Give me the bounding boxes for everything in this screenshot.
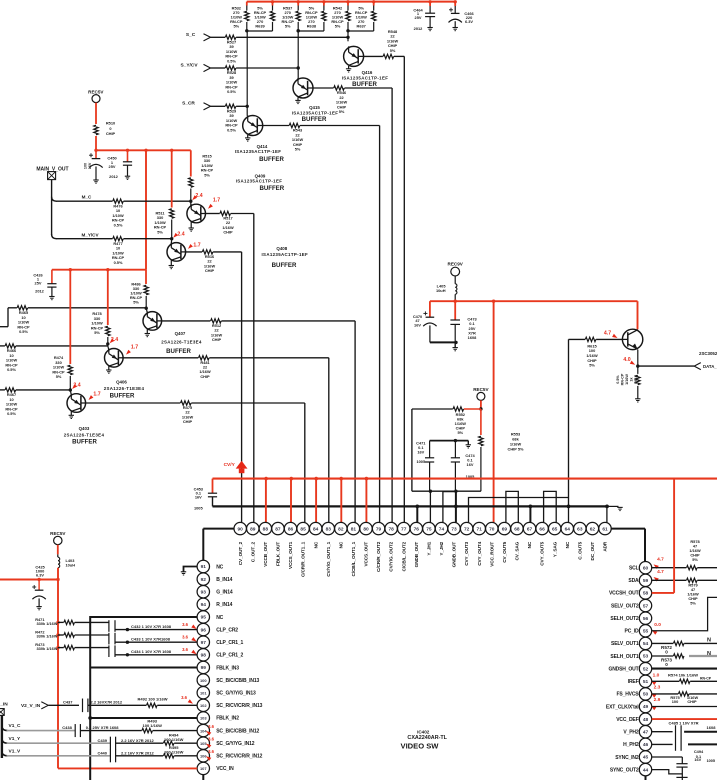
wire red stubs to pins xyxy=(265,479,267,523)
svg-text:4.7: 4.7 xyxy=(657,569,664,575)
svg-text:BUFFER: BUFFER xyxy=(259,156,284,163)
svg-text:R574 10k 1/16W: R574 10k 1/16W xyxy=(668,673,698,678)
svg-text:VCC_ROUT: VCC_ROUT xyxy=(489,542,494,567)
IC left pins xyxy=(197,560,209,572)
resistor R471 xyxy=(56,621,59,624)
capacitor C473 xyxy=(454,301,456,320)
transistor Q409 ISA1235AC1TP-1EF xyxy=(190,201,192,205)
svg-text:5%: 5% xyxy=(133,300,139,305)
svg-text:102: 102 xyxy=(200,703,207,708)
power rail mid-left (red) xyxy=(52,269,146,271)
ground Q406 xyxy=(108,366,110,370)
capacitor C4xx H_PH2 xyxy=(652,743,673,745)
ground Q414 xyxy=(247,135,249,138)
svg-text:IREF: IREF xyxy=(628,679,639,685)
resistor R637 xyxy=(373,2,375,6)
wire R517 to pin89 xyxy=(231,213,254,215)
power rail CV/Y (red) xyxy=(213,478,717,480)
svg-text:CLP_CR1_2: CLP_CR1_2 xyxy=(216,653,243,659)
svg-text:1608: 1608 xyxy=(707,725,717,730)
resistor R546 xyxy=(313,87,334,89)
resistor R510 xyxy=(94,125,98,135)
wire V1 stub xyxy=(1,715,3,758)
wire to Q406 xyxy=(16,345,108,347)
svg-text:74: 74 xyxy=(439,526,445,532)
svg-text:NC: NC xyxy=(338,541,343,548)
svg-text:47: 47 xyxy=(643,729,649,735)
svg-text:C/CR/R_OUT2: C/CR/R_OUT2 xyxy=(376,541,381,572)
svg-text:VCCS_OUT: VCCS_OUT xyxy=(364,542,369,567)
capacitor C474 xyxy=(454,441,456,458)
resistor R472 xyxy=(56,633,59,636)
wire pin103 FBLK_IN2 xyxy=(90,717,197,719)
svg-text:EXT_CLK/X'tal: EXT_CLK/X'tal xyxy=(606,704,639,710)
jumper pins 69-68 xyxy=(506,491,518,522)
svg-text:CV_OUT5: CV_OUT5 xyxy=(502,541,507,562)
svg-text:CHIP: CHIP xyxy=(205,268,215,273)
svg-text:48: 48 xyxy=(643,717,649,723)
wire S_CR xyxy=(211,105,226,107)
resistor R574 xyxy=(652,680,680,682)
capacitor C438 xyxy=(74,724,76,737)
capacitor C4xx V_PH2 xyxy=(652,731,673,733)
svg-text:SC_B/C/CB/B_IN12: SC_B/C/CB/B_IN12 xyxy=(216,728,259,734)
svg-text:0.5%: 0.5% xyxy=(227,127,236,132)
capacitor C494 xyxy=(652,756,683,758)
svg-text:25V: 25V xyxy=(109,164,116,169)
svg-text:VCC_DEF: VCC_DEF xyxy=(616,717,638,723)
svg-text:SELV_OUT1: SELV_OUT1 xyxy=(611,641,639,647)
svg-text:BUFFER: BUFFER xyxy=(302,116,327,123)
resistor R575 xyxy=(652,693,679,695)
wire M_C to Q409 xyxy=(124,200,191,202)
wire R481 to pin83 xyxy=(209,357,328,359)
svg-text:FBLK_IN2: FBLK_IN2 xyxy=(216,716,239,722)
wire MAIN_V_OUT xyxy=(51,180,53,235)
svg-text:Q416: Q416 xyxy=(362,70,373,75)
svg-text:ISA1235AC1TP-1EF: ISA1235AC1TP-1EF xyxy=(261,252,308,257)
ground Q409 xyxy=(190,222,192,229)
resistor R578 xyxy=(652,567,687,569)
wire pin72 to pin64 link xyxy=(469,498,569,523)
IC top pins xyxy=(234,522,246,534)
svg-text:N: N xyxy=(707,651,711,657)
svg-text:2.3: 2.3 xyxy=(654,684,661,690)
svg-text:1608: 1608 xyxy=(468,335,477,340)
svg-text:60: 60 xyxy=(643,565,649,571)
wire EXT_CLK xyxy=(652,706,717,708)
svg-text:SELH_OUT1: SELH_OUT1 xyxy=(610,654,638,660)
svg-text:79: 79 xyxy=(376,526,382,532)
svg-text:2012: 2012 xyxy=(109,174,118,179)
svg-text:R637: R637 xyxy=(357,24,366,29)
svg-text:0: 0 xyxy=(665,662,668,667)
svg-text:2.2 16V X7R 2012: 2.2 16V X7R 2012 xyxy=(121,750,154,755)
svg-text:76: 76 xyxy=(414,526,420,532)
transistor Q403 2SA1226-T1E3E4 xyxy=(70,390,71,395)
ground Q403 xyxy=(70,411,72,415)
svg-text:6.3V: 6.3V xyxy=(36,572,44,577)
resistor R466 xyxy=(5,344,16,348)
svg-text:2.4: 2.4 xyxy=(177,231,184,237)
svg-text:1005: 1005 xyxy=(194,506,203,511)
svg-text:C_OUT5: C_OUT5 xyxy=(577,541,582,559)
resistor R478 xyxy=(107,270,109,325)
svg-text:6.3V: 6.3V xyxy=(465,19,473,24)
svg-text:73: 73 xyxy=(451,526,457,532)
wire pin76 stub xyxy=(416,506,418,522)
svg-text:SYNC_IN2: SYNC_IN2 xyxy=(615,755,639,761)
svg-text:86: 86 xyxy=(288,526,294,532)
svg-text:CV/Y/G_OUT2: CV/Y/G_OUT2 xyxy=(389,541,394,571)
wire M_C xyxy=(56,200,113,202)
svg-text:49: 49 xyxy=(643,704,649,710)
IC right pins xyxy=(639,562,651,574)
svg-text:3.6: 3.6 xyxy=(208,749,214,754)
svg-text:R510: R510 xyxy=(106,121,115,126)
svg-text:Q407: Q407 xyxy=(175,331,186,336)
resistor R638 xyxy=(323,2,325,6)
wire red VCC_IN vertical xyxy=(57,568,59,769)
transistor Q416 ISA1235AC1TP-1EF xyxy=(344,46,364,66)
wire pin75 xyxy=(429,491,431,522)
svg-text:80: 80 xyxy=(363,526,369,532)
wire R552 box left xyxy=(411,409,413,491)
svg-text:16V: 16V xyxy=(195,495,202,500)
svg-text:V1_C: V1_C xyxy=(9,723,22,729)
capacitor C450 xyxy=(95,150,97,158)
svg-text:M_C: M_C xyxy=(82,194,92,199)
svg-text:103: 103 xyxy=(200,716,207,721)
svg-text:64: 64 xyxy=(565,526,571,532)
svg-text:3.6: 3.6 xyxy=(208,724,214,729)
svg-text:V_PH2: V_PH2 xyxy=(623,730,638,736)
wire pair1 vertical to Q414 xyxy=(246,31,248,116)
power rail REC9V (red) xyxy=(430,300,638,302)
wire R516 to pin90 xyxy=(213,251,242,253)
svg-text:4.7: 4.7 xyxy=(657,557,664,563)
svg-text:63: 63 xyxy=(577,526,583,532)
svg-text:4.0: 4.0 xyxy=(623,357,630,363)
wire pin64 stub xyxy=(568,506,570,522)
svg-text:BUFFER: BUFFER xyxy=(272,262,297,269)
wire pin99 FBLK_IN3 xyxy=(90,667,197,669)
GND bus bottom-left xyxy=(90,617,197,780)
svg-text:5%: 5% xyxy=(285,24,291,29)
resistor R615 xyxy=(569,338,586,340)
svg-text:62: 62 xyxy=(590,526,596,532)
resistor R475 xyxy=(85,402,181,404)
svg-text:CVY_OUT3: CVY_OUT3 xyxy=(464,541,469,565)
svg-text:84: 84 xyxy=(313,526,319,532)
capacitor C433 xyxy=(75,634,109,636)
svg-text:2SA1226-T1E3E4: 2SA1226-T1E3E4 xyxy=(64,432,105,437)
wire pin74 jog xyxy=(443,492,456,523)
svg-text:1.0: 1.0 xyxy=(653,673,660,679)
capacitor C437 xyxy=(48,704,79,706)
resistor R528 xyxy=(225,66,236,70)
wire R543 to pin79 xyxy=(300,125,380,127)
svg-text:C_OUT_2: C_OUT_2 xyxy=(250,541,255,562)
svg-text:CHIP: CHIP xyxy=(212,337,222,342)
wire S_C to Q416/pair xyxy=(236,36,348,38)
svg-text:96: 96 xyxy=(201,627,207,633)
wire pin73 stub xyxy=(455,491,457,522)
svg-text:85: 85 xyxy=(300,526,306,532)
svg-text:3.6: 3.6 xyxy=(182,622,188,627)
capacitor C470 xyxy=(429,301,431,317)
wire R466 input xyxy=(0,345,5,347)
svg-text:46: 46 xyxy=(643,742,649,748)
svg-text:45: 45 xyxy=(643,755,649,761)
svg-text:2SC3052K: 2SC3052K xyxy=(699,351,717,356)
svg-text:REC5V: REC5V xyxy=(473,387,489,392)
svg-text:70: 70 xyxy=(489,526,495,532)
svg-text:5%: 5% xyxy=(157,229,163,234)
svg-text:REC9V: REC9V xyxy=(448,262,464,267)
svg-text:FBLK_IN3: FBLK_IN3 xyxy=(216,665,239,671)
svg-text:Y_JH1: Y_JH1 xyxy=(426,541,431,555)
transistor Q407 2SA1226-T1E3E4 xyxy=(146,308,147,313)
svg-text:Q415: Q415 xyxy=(309,105,320,110)
svg-text:81: 81 xyxy=(351,526,357,532)
resistor R639 xyxy=(272,2,274,6)
inductor L405 xyxy=(454,276,456,284)
wire S_Y/CV to Q415 xyxy=(236,67,298,69)
svg-text:CV_OUT_2: CV_OUT_2 xyxy=(238,541,243,565)
svg-text:C485 1 10V X7R: C485 1 10V X7R xyxy=(668,721,698,726)
svg-text:SC_G/Y/YG_IN12: SC_G/Y/YG_IN12 xyxy=(216,741,255,747)
svg-text:CHIP 5%: CHIP 5% xyxy=(508,446,524,451)
svg-text:5%: 5% xyxy=(204,172,210,177)
svg-text:R616: R616 xyxy=(634,375,638,384)
svg-text:C433 1 10V X7R1608: C433 1 10V X7R1608 xyxy=(131,636,171,641)
svg-text:0.0: 0.0 xyxy=(654,622,661,628)
IC IC402 CXA2040AR-TL outline xyxy=(203,528,645,530)
resistor R616 xyxy=(636,375,640,385)
svg-text:2.2 16V X7R 2012: 2.2 16V X7R 2012 xyxy=(121,738,154,743)
resistor R492 xyxy=(88,704,146,706)
svg-text:5%: 5% xyxy=(390,48,396,53)
svg-text:16V: 16V xyxy=(417,449,424,454)
svg-text:104: 104 xyxy=(200,728,207,733)
resistor R552 xyxy=(464,408,481,410)
svg-text:BUFFER: BUFFER xyxy=(166,348,191,355)
wire pair join xyxy=(247,30,273,32)
svg-text:16V: 16V xyxy=(694,757,701,762)
resistor R512 xyxy=(161,320,211,322)
svg-text:N: N xyxy=(707,638,711,644)
svg-text:91: 91 xyxy=(201,564,207,570)
svg-text:SELH_OUT2: SELH_OUT2 xyxy=(610,616,638,622)
svg-text:0.5%: 0.5% xyxy=(114,260,123,265)
svg-text:1005: 1005 xyxy=(707,759,715,763)
svg-text:NC: NC xyxy=(216,615,223,621)
power rail (top, red) xyxy=(247,1,456,3)
svg-text:PC_ID: PC_ID xyxy=(625,629,640,635)
jumper pins 66-65 xyxy=(544,491,557,522)
svg-text:V2_V_IN: V2_V_IN xyxy=(21,703,41,709)
svg-text:97: 97 xyxy=(201,640,207,646)
svg-text:SCL: SCL xyxy=(629,566,639,572)
resistor R495 xyxy=(116,755,164,757)
wire VCC_DEF red xyxy=(652,718,717,720)
svg-text:16V: 16V xyxy=(467,462,474,467)
svg-text:50: 50 xyxy=(643,692,649,698)
svg-text:SC_R/CV/CR/R_IN13: SC_R/CV/CR/R_IN13 xyxy=(216,703,262,709)
wire VCCSH_OUT red xyxy=(673,479,675,593)
resistor R511 xyxy=(171,150,173,207)
svg-text:DC_OUT: DC_OUT xyxy=(590,542,595,561)
svg-text:2.9: 2.9 xyxy=(654,697,661,703)
svg-text:CLP_CR2: CLP_CR2 xyxy=(216,627,238,633)
svg-text:V1_Y: V1_Y xyxy=(9,736,22,742)
svg-text:61: 61 xyxy=(602,526,608,532)
resistor R473 xyxy=(56,646,59,649)
wire GNDSH_OUT xyxy=(652,668,717,670)
ground pin91 xyxy=(184,567,198,572)
svg-text:RN-CP: RN-CP xyxy=(621,373,625,385)
svg-text:G_IN14: G_IN14 xyxy=(216,590,233,596)
svg-text:SC_G/Y/Y/G_IN13: SC_G/Y/Y/G_IN13 xyxy=(216,691,256,697)
svg-text:S_C: S_C xyxy=(186,32,196,38)
svg-text:CHIP: CHIP xyxy=(223,230,233,235)
svg-text:S_Y/CV: S_Y/CV xyxy=(180,62,198,68)
svg-text:CHIP: CHIP xyxy=(106,131,116,136)
wire red rail mid xyxy=(95,136,97,150)
svg-text:SC_B/C/CB/B_IN13: SC_B/C/CB/B_IN13 xyxy=(216,678,259,684)
svg-text:1.7: 1.7 xyxy=(193,242,200,248)
svg-text:Q406: Q406 xyxy=(116,380,127,385)
svg-text:57: 57 xyxy=(643,603,649,609)
capacitor C451 xyxy=(127,150,129,162)
wire REC5V junction xyxy=(480,400,482,409)
svg-text:16V: 16V xyxy=(414,322,421,327)
wire pair2 vertical to Q415 xyxy=(297,31,299,78)
svg-text:C/CB/L_OUT2: C/CB/L_OUT2 xyxy=(401,541,406,571)
svg-text:0: 0 xyxy=(109,126,111,131)
resistor R543 xyxy=(263,125,289,127)
svg-text:107: 107 xyxy=(200,766,207,771)
capacitor C464 xyxy=(429,2,431,6)
svg-text:VIDEO SW: VIDEO SW xyxy=(401,741,440,750)
svg-text:2012: 2012 xyxy=(414,26,423,31)
svg-text:82: 82 xyxy=(338,526,344,532)
svg-text:10uH: 10uH xyxy=(66,562,76,567)
svg-text:330k 1/16W: 330k 1/16W xyxy=(37,634,58,639)
svg-text:DATA_: DATA_ xyxy=(703,364,717,369)
wire S_CR to Q414 xyxy=(236,105,247,107)
svg-text:C/CR/R_OUT1_1: C/CR/R_OUT1_1 xyxy=(301,541,306,577)
wire M_Y/CV to Q408 xyxy=(124,238,172,240)
svg-text:5%: 5% xyxy=(339,109,345,114)
wire cap bracket xyxy=(430,440,469,442)
svg-text:0.5%: 0.5% xyxy=(19,329,28,334)
svg-text:56: 56 xyxy=(643,616,649,622)
wire R475 to pin85 xyxy=(191,402,304,404)
svg-text:_IN: _IN xyxy=(0,702,8,708)
svg-text:92: 92 xyxy=(201,577,207,583)
wire to Q407 xyxy=(28,307,146,309)
svg-text:FS_HVCS: FS_HVCS xyxy=(616,692,639,698)
resistor R476 xyxy=(113,199,124,203)
resistor R516 xyxy=(185,251,202,253)
svg-text:1.7: 1.7 xyxy=(131,344,138,350)
svg-text:100 1/16W: 100 1/16W xyxy=(143,723,163,728)
wire REC9V to pin70 (red) xyxy=(493,301,495,522)
svg-text:100 1/16W: 100 1/16W xyxy=(164,749,184,754)
wire pair join xyxy=(348,30,374,32)
svg-text:RN-CP: RN-CP xyxy=(700,676,712,680)
resistor R553 xyxy=(480,409,482,435)
resistor R529 xyxy=(225,104,236,108)
svg-text:CHIP: CHIP xyxy=(183,419,193,424)
svg-text:CLP_CR1_1: CLP_CR1_1 xyxy=(216,640,243,646)
svg-text:3.6: 3.6 xyxy=(208,737,214,742)
resistor R515 xyxy=(190,150,192,176)
svg-text:REC5V: REC5V xyxy=(88,89,104,94)
svg-text:Y_SAG: Y_SAG xyxy=(552,541,557,557)
wire V1_C (gray) xyxy=(2,726,8,731)
wire SYNC_OUT2 xyxy=(652,770,683,774)
svg-text:5%: 5% xyxy=(94,330,100,335)
wire R465 input xyxy=(0,326,8,328)
svg-text:SDA: SDA xyxy=(628,578,639,584)
svg-text:1.7: 1.7 xyxy=(213,198,220,204)
resistor R548 xyxy=(364,55,383,57)
svg-text:83: 83 xyxy=(326,526,332,532)
resistor R537 xyxy=(297,2,299,6)
svg-text:CHIP: CHIP xyxy=(200,374,210,379)
svg-text:330k 1/16W: 330k 1/16W xyxy=(37,646,58,651)
svg-text:SELV_OUT2: SELV_OUT2 xyxy=(611,603,639,609)
svg-text:CV/Y: CV/Y xyxy=(224,462,236,468)
svg-text:53: 53 xyxy=(643,654,649,660)
svg-text:5%: 5% xyxy=(233,24,239,29)
wire red branch left xyxy=(0,579,58,581)
wire pin67 stub xyxy=(529,506,531,522)
svg-text:BUFFER: BUFFER xyxy=(72,439,97,446)
svg-text:VCCB_OUT: VCCB_OUT xyxy=(263,542,268,567)
svg-text:88: 88 xyxy=(263,526,269,532)
resistor R517 xyxy=(205,213,220,215)
wire V1_V (gray) xyxy=(2,751,8,756)
svg-text:M_Y/CV: M_Y/CV xyxy=(81,232,99,237)
svg-text:NC: NC xyxy=(565,541,570,548)
svg-text:SC_R/CV/CR/R_IN12: SC_R/CV/CR/R_IN12 xyxy=(216,754,262,760)
svg-text:B_IN14: B_IN14 xyxy=(216,577,232,583)
transistor Q415 ISA1235AC1TP-1EF xyxy=(293,78,313,98)
resistor R542 xyxy=(347,2,349,6)
svg-text:5%: 5% xyxy=(295,147,301,152)
capacitor C439 xyxy=(109,737,111,750)
resistor R465 xyxy=(17,306,28,310)
svg-text:101: 101 xyxy=(200,690,207,695)
wire red to pin107 VCC_IN xyxy=(58,767,197,769)
svg-text:75: 75 xyxy=(426,526,432,532)
svg-text:1.7: 1.7 xyxy=(93,392,100,398)
svg-text:ISA1235AC1TP-1EF: ISA1235AC1TP-1EF xyxy=(235,149,282,154)
resistor R573 xyxy=(652,655,674,657)
svg-text:GNDB_OUT: GNDB_OUT xyxy=(414,542,419,568)
svg-text:GNDB_OUT: GNDB_OUT xyxy=(452,542,457,568)
svg-text:0.5%: 0.5% xyxy=(114,222,123,227)
ground Q408 xyxy=(170,260,172,266)
svg-text:C438: C438 xyxy=(62,725,72,730)
transistor Q406 2SA1226-T1E3E4 xyxy=(108,346,109,350)
svg-text:100 1/16W: 100 1/16W xyxy=(164,737,184,742)
capacitor bottom partial xyxy=(676,776,687,778)
